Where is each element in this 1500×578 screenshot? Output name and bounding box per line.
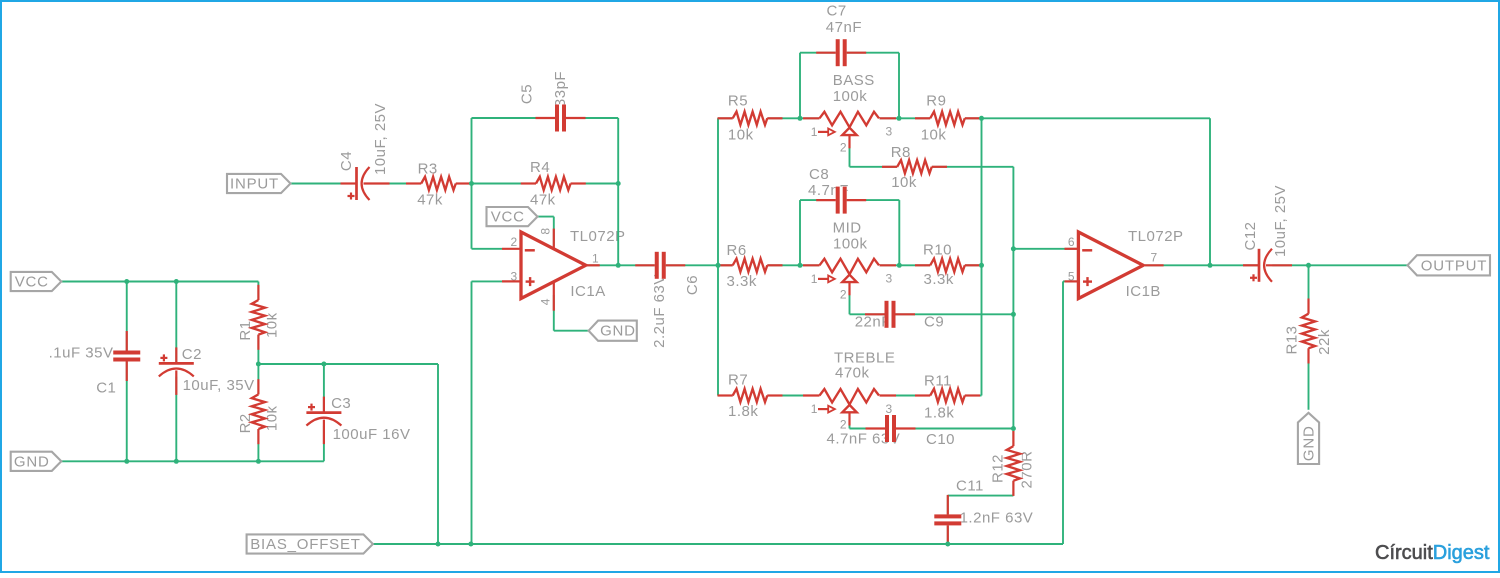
svg-text:1.8k: 1.8k <box>728 403 758 420</box>
svg-text:470k: 470k <box>835 365 870 382</box>
svg-text:2: 2 <box>840 418 847 432</box>
svg-text:7: 7 <box>1151 251 1158 265</box>
svg-text:100uF 16V: 100uF 16V <box>333 426 411 443</box>
svg-text:GND: GND <box>1301 425 1318 461</box>
svg-text:MID: MID <box>833 220 862 237</box>
svg-text:TL072P: TL072P <box>1128 228 1184 245</box>
svg-text:1: 1 <box>592 251 599 265</box>
svg-text:2: 2 <box>511 235 518 249</box>
svg-text:TL072P: TL072P <box>570 228 626 245</box>
svg-text:C5: C5 <box>519 84 536 104</box>
svg-text:10k: 10k <box>728 127 754 144</box>
svg-text:10uF, 25V: 10uF, 25V <box>372 103 389 175</box>
svg-text:3.3k: 3.3k <box>727 273 757 290</box>
svg-text:INPUT: INPUT <box>230 176 279 193</box>
svg-text:C2: C2 <box>182 346 202 363</box>
svg-text:.1uF 35V: .1uF 35V <box>49 345 114 362</box>
svg-text:3: 3 <box>886 272 893 286</box>
svg-text:R3: R3 <box>418 161 438 178</box>
svg-text:1: 1 <box>811 272 818 286</box>
svg-text:GND: GND <box>14 453 50 470</box>
svg-text:1.2nF 63V: 1.2nF 63V <box>960 510 1034 527</box>
svg-text:R5: R5 <box>728 92 748 109</box>
svg-text:R13: R13 <box>1284 325 1301 354</box>
svg-text:4: 4 <box>539 298 553 305</box>
svg-text:10uF, 35V: 10uF, 35V <box>183 377 255 394</box>
svg-text:C4: C4 <box>338 151 355 171</box>
svg-text:8: 8 <box>539 227 553 234</box>
svg-text:OUTPUT: OUTPUT <box>1421 257 1487 274</box>
svg-text:10uF, 25V: 10uF, 25V <box>1272 185 1289 257</box>
svg-text:IC1B: IC1B <box>1126 283 1161 300</box>
svg-text:100k: 100k <box>833 236 868 253</box>
svg-text:R10: R10 <box>923 242 952 259</box>
svg-text:47nF: 47nF <box>826 19 862 36</box>
svg-text:33pF: 33pF <box>552 71 569 107</box>
svg-text:2: 2 <box>840 287 847 301</box>
svg-text:IC1A: IC1A <box>570 283 605 300</box>
svg-text:C9: C9 <box>924 314 944 331</box>
svg-text:GND: GND <box>600 323 636 340</box>
svg-text:6: 6 <box>1068 235 1075 249</box>
svg-text:1.8k: 1.8k <box>924 404 954 421</box>
svg-text:BASS: BASS <box>833 72 875 89</box>
svg-text:VCC: VCC <box>491 209 525 226</box>
svg-text:R9: R9 <box>926 92 946 109</box>
svg-text:2: 2 <box>840 140 847 154</box>
svg-text:22k: 22k <box>1316 329 1333 355</box>
svg-text:C11: C11 <box>956 478 984 495</box>
svg-text:C3: C3 <box>331 395 351 412</box>
svg-text:1: 1 <box>811 125 818 139</box>
svg-text:10k: 10k <box>921 127 947 144</box>
svg-text:CírcuitDigest: CírcuitDigest <box>1375 542 1490 564</box>
svg-text:100k: 100k <box>833 88 868 105</box>
svg-text:BIAS_OFFSET: BIAS_OFFSET <box>250 536 361 553</box>
svg-text:C1: C1 <box>96 380 116 397</box>
svg-text:47k: 47k <box>530 192 556 209</box>
svg-text:VCC: VCC <box>15 274 49 291</box>
svg-text:2.2uF 63V: 2.2uF 63V <box>651 274 668 348</box>
svg-text:47k: 47k <box>417 192 443 209</box>
svg-text:3: 3 <box>886 402 893 416</box>
svg-text:R11: R11 <box>924 373 952 390</box>
svg-text:1: 1 <box>811 402 818 416</box>
svg-text:3: 3 <box>886 125 893 139</box>
svg-text:C8: C8 <box>809 166 829 183</box>
svg-text:R7: R7 <box>728 372 748 389</box>
svg-text:C12: C12 <box>1242 221 1259 250</box>
svg-text:R4: R4 <box>530 159 550 176</box>
svg-text:C7: C7 <box>827 3 847 20</box>
svg-text:C10: C10 <box>926 431 955 448</box>
svg-text:C6: C6 <box>684 275 701 295</box>
